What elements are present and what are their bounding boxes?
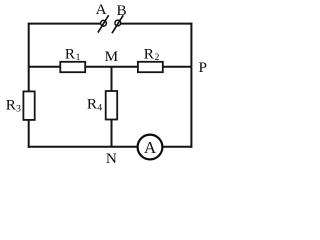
label R2 <box>144 45 160 63</box>
resistor R3 <box>23 91 34 120</box>
ammeter A1 (circle meter) <box>138 135 163 160</box>
node N <box>106 150 117 167</box>
svg-text:N: N <box>106 150 117 167</box>
svg-text:3: 3 <box>16 103 21 114</box>
wire top-left segment (left corner to terminal A) <box>28 23 101 25</box>
svg-text:R: R <box>144 45 155 62</box>
wire top-right segment (terminal B to right corner) <box>121 23 193 25</box>
wire middle horizontal (R1-M-R2 rail) <box>29 66 192 68</box>
svg-text:P: P <box>199 59 207 76</box>
svg-text:R: R <box>87 96 98 113</box>
svg-text:B: B <box>117 2 127 19</box>
svg-text:2: 2 <box>155 52 160 63</box>
svg-text:4: 4 <box>97 102 102 113</box>
svg-text:M: M <box>105 48 119 65</box>
resistor R1 <box>60 62 85 72</box>
svg-text:A: A <box>96 1 107 18</box>
wire left vertical <box>28 23 30 148</box>
label R3 <box>6 96 21 114</box>
terminal A (circle with slash) <box>98 15 109 32</box>
resistor R4 <box>106 91 118 120</box>
wire M-N branch vertical <box>111 67 113 147</box>
svg-text:1: 1 <box>76 53 81 63</box>
wire right vertical <box>190 23 192 148</box>
node M <box>105 48 119 65</box>
label A (terminal) <box>96 1 107 18</box>
label R1 <box>65 45 81 63</box>
svg-text:R: R <box>65 45 76 62</box>
svg-text:A: A <box>144 138 156 157</box>
label R4 <box>87 96 102 114</box>
label B (terminal) <box>117 2 127 19</box>
node P <box>199 59 207 76</box>
resistor R2 <box>138 62 163 72</box>
wire bottom <box>28 146 193 148</box>
terminal B (circle with slash) <box>112 15 123 33</box>
